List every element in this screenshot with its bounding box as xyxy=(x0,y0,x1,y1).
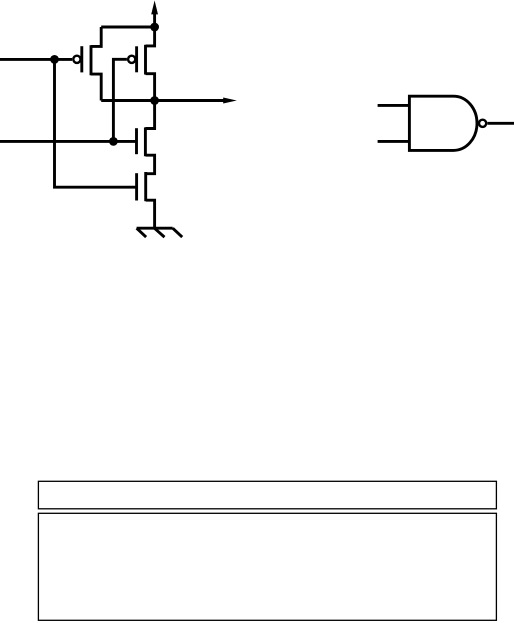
wire NAND output xyxy=(487,122,514,125)
transistor Q3 NMOS channel bar xyxy=(144,127,147,156)
wire VDD top rail xyxy=(101,26,154,29)
node output junction dot xyxy=(150,96,159,105)
node B junction dot xyxy=(109,137,118,146)
answer box 2 xyxy=(38,513,496,620)
ground slash left xyxy=(137,228,147,237)
wire B vertical up to PMOS Q2 gate xyxy=(113,59,127,141)
node A junction dot xyxy=(50,55,59,64)
ground slash middle xyxy=(154,228,164,237)
transistor Q1 PMOS channel bar xyxy=(90,45,93,75)
transistor Q2 PMOS channel bar xyxy=(144,45,147,75)
power VDD arrow shaft xyxy=(153,14,156,28)
transistor Q3 NMOS gate bar xyxy=(135,128,138,154)
wire Q3 source to Q4 drain xyxy=(145,155,154,174)
wire A vertical down to NMOS Q4 gate xyxy=(55,59,137,187)
transistor Q2 PMOS source lead to VDD dot xyxy=(146,27,155,46)
ground bar xyxy=(137,227,173,230)
transistor Q3 NMOS drain lead from output node xyxy=(145,101,154,129)
wire output arrowhead xyxy=(223,98,237,104)
wire input B horizontal xyxy=(0,140,137,143)
gate U1 NAND output bubble xyxy=(479,120,486,127)
transistor Q2 PMOS gate bubble xyxy=(128,56,135,63)
answer box 1 xyxy=(38,481,496,509)
transistor Q2 PMOS gate bar xyxy=(135,46,138,72)
gate U1 NAND body xyxy=(409,96,477,150)
transistor Q4 NMOS source lead to ground xyxy=(146,200,155,228)
ground slash right xyxy=(173,228,183,237)
wire output horizontal xyxy=(101,99,225,102)
transistor Q1 PMOS drain lead to output xyxy=(91,74,101,100)
transistor Q4 NMOS gate bar xyxy=(135,173,138,200)
wire NAND input 2 xyxy=(378,140,410,143)
power VDD arrowhead xyxy=(151,1,158,15)
wire NAND input 1 xyxy=(378,104,410,107)
wire input A horizontal xyxy=(0,58,72,61)
transistor Q1 PMOS gate bar xyxy=(80,46,83,72)
transistor Q4 NMOS channel bar xyxy=(144,172,147,201)
transistor Q2 PMOS drain lead to output node xyxy=(146,74,155,101)
transistor Q1 PMOS source lead to VDD rail xyxy=(91,27,101,46)
node VDD junction dot xyxy=(150,23,159,32)
transistor Q1 PMOS gate bubble xyxy=(73,56,80,63)
